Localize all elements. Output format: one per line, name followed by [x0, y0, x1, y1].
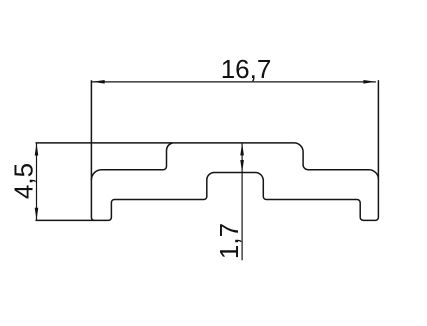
svg-text:1,7: 1,7 [214, 223, 244, 259]
svg-text:16,7: 16,7 [221, 54, 272, 84]
svg-text:4,5: 4,5 [8, 163, 38, 199]
